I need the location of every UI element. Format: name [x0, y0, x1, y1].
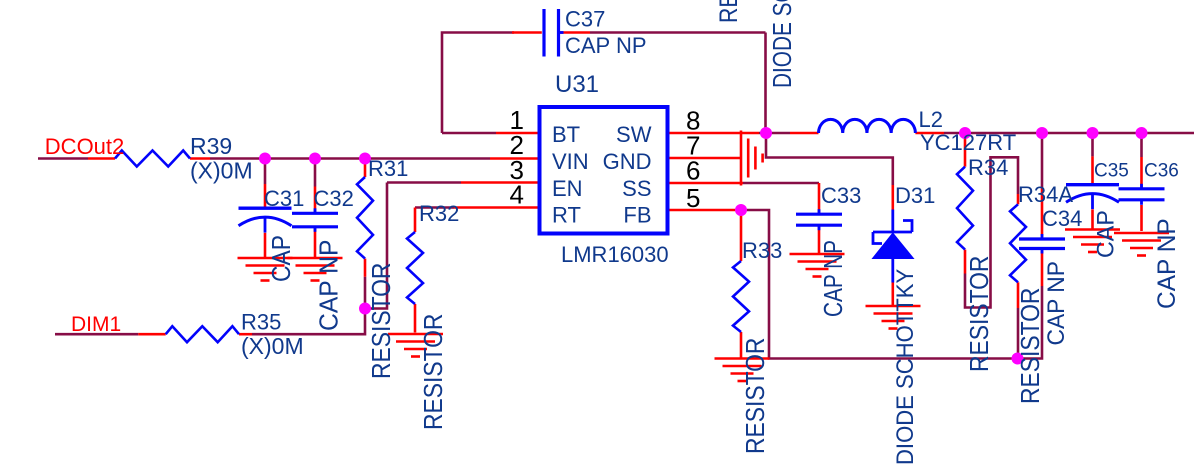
- svg-text:C35: C35: [1094, 161, 1129, 182]
- svg-text:D31: D31: [895, 183, 935, 208]
- svg-text:DIODE SCHOTTKY: DIODE SCHOTTKY: [768, 0, 797, 88]
- svg-text:C34: C34: [1042, 206, 1082, 231]
- svg-text:R34: R34: [968, 155, 1008, 180]
- svg-text:RESISTOR: RESISTOR: [420, 314, 449, 430]
- svg-text:R31: R31: [368, 156, 408, 181]
- svg-text:4: 4: [510, 180, 524, 210]
- svg-text:6: 6: [686, 156, 700, 186]
- svg-text:DIODE SCHOTTKY: DIODE SCHOTTKY: [891, 269, 918, 465]
- svg-text:(X)0M: (X)0M: [241, 333, 304, 359]
- svg-text:DCOut2: DCOut2: [45, 134, 124, 159]
- svg-text:C37: C37: [565, 7, 605, 32]
- svg-text:GND: GND: [603, 149, 652, 174]
- svg-text:RESISTOR: RESISTOR: [368, 263, 397, 379]
- svg-text:SS: SS: [622, 176, 651, 201]
- svg-text:R35: R35: [241, 310, 281, 335]
- svg-text:LMR16030: LMR16030: [561, 242, 669, 267]
- svg-text:BT: BT: [552, 122, 580, 147]
- svg-text:SW: SW: [616, 122, 652, 147]
- svg-text:CAP: CAP: [268, 235, 297, 282]
- svg-text:CAP NP: CAP NP: [1042, 261, 1069, 345]
- svg-text:R33: R33: [742, 238, 782, 263]
- svg-text:R32: R32: [419, 201, 459, 226]
- svg-text:RESISTOR: RESISTOR: [1017, 288, 1046, 404]
- svg-text:RESISTOR: RESISTOR: [742, 338, 771, 454]
- svg-text:C32: C32: [314, 186, 354, 211]
- svg-text:EN: EN: [552, 176, 583, 201]
- svg-text:R34A: R34A: [1018, 182, 1073, 207]
- svg-text:C36: C36: [1144, 161, 1179, 182]
- svg-text:CAP: CAP: [1093, 210, 1119, 258]
- svg-text:FB: FB: [623, 203, 651, 228]
- svg-text:5: 5: [686, 183, 700, 213]
- svg-text:RT: RT: [552, 203, 581, 228]
- svg-text:CAP NP: CAP NP: [565, 33, 647, 58]
- svg-text:R39: R39: [190, 133, 232, 159]
- svg-text:RESISTOR: RESISTOR: [714, 0, 742, 23]
- svg-text:CAP NP: CAP NP: [819, 240, 848, 317]
- svg-text:C31: C31: [264, 186, 304, 211]
- svg-text:(X)0M: (X)0M: [190, 158, 253, 184]
- svg-text:L2: L2: [919, 107, 943, 132]
- svg-text:RESISTOR: RESISTOR: [966, 256, 995, 372]
- svg-text:YC127RT: YC127RT: [920, 130, 1016, 155]
- svg-text:U31: U31: [555, 71, 599, 98]
- svg-text:VIN: VIN: [552, 149, 589, 174]
- svg-text:DIM1: DIM1: [71, 313, 121, 336]
- svg-text:CAP NP: CAP NP: [1154, 218, 1181, 309]
- svg-text:C33: C33: [821, 183, 861, 208]
- svg-text:CAP NP: CAP NP: [315, 240, 344, 331]
